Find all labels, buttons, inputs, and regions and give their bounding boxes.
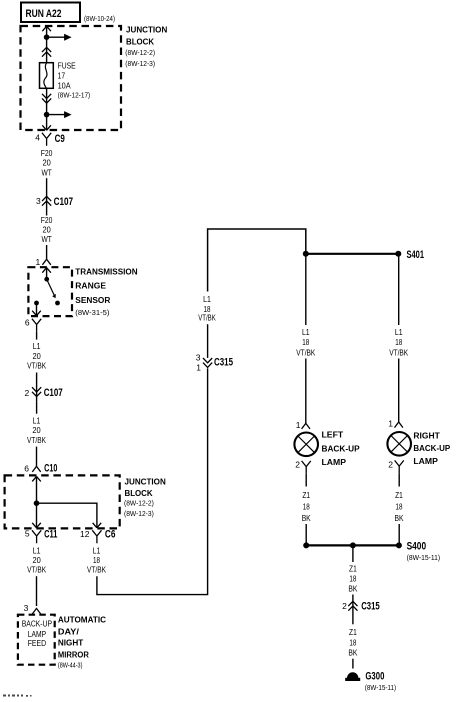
node: splice middle on bus bbox=[350, 542, 356, 548]
svg-text:1: 1 bbox=[296, 420, 301, 430]
left lamp pin 2 bbox=[295, 460, 311, 474]
right lamp pin 1 bbox=[388, 419, 403, 429]
svg-text:18: 18 bbox=[302, 337, 309, 347]
svg-text:VT/BK: VT/BK bbox=[27, 360, 46, 370]
ground G300 labels bbox=[365, 671, 397, 692]
svg-text:RUN A22: RUN A22 bbox=[26, 8, 62, 20]
svg-text:L1: L1 bbox=[302, 327, 310, 337]
junction block JB2 labels bbox=[124, 476, 166, 517]
switch pin6 node bbox=[34, 301, 39, 306]
svg-text:F20: F20 bbox=[41, 148, 53, 158]
svg-text:(8W-15-11): (8W-15-11) bbox=[365, 683, 397, 692]
svg-text:C9: C9 bbox=[55, 133, 65, 145]
pin 1 of transmission range sensor bbox=[35, 257, 50, 267]
svg-text:FUSE: FUSE bbox=[58, 61, 76, 71]
connector RUN A22 bbox=[21, 3, 80, 23]
svg-text:(8W-12-3): (8W-12-3) bbox=[125, 59, 155, 68]
wire bbox=[398, 359, 400, 423]
transmission range sensor labels bbox=[75, 267, 137, 317]
switch arm with arrowhead bbox=[47, 279, 55, 296]
svg-text:10A: 10A bbox=[58, 80, 71, 90]
svg-text:RIGHT: RIGHT bbox=[413, 431, 440, 441]
entry arrow into sensor bbox=[42, 268, 51, 273]
svg-text:C315: C315 bbox=[214, 357, 233, 369]
svg-text:C10: C10 bbox=[44, 462, 57, 474]
wire label L1 20 VT/BK below C11 bbox=[27, 545, 46, 574]
entry arrow into JB2 bbox=[32, 476, 41, 481]
svg-text:2: 2 bbox=[24, 388, 29, 398]
automatic day/night mirror labels bbox=[58, 615, 106, 670]
junction block JB1 box bbox=[21, 26, 122, 130]
svg-text:5: 5 bbox=[25, 529, 30, 539]
right back-up lamp labels bbox=[413, 431, 450, 466]
wire right lamp column upper bbox=[398, 254, 400, 325]
svg-text:18: 18 bbox=[93, 555, 100, 565]
svg-text:3: 3 bbox=[36, 196, 41, 206]
wire above C315 bbox=[207, 324, 209, 358]
svg-text:JUNCTION: JUNCTION bbox=[125, 476, 166, 486]
svg-text:WT: WT bbox=[41, 234, 51, 244]
svg-text:BACK-UP: BACK-UP bbox=[413, 443, 450, 453]
svg-text:20: 20 bbox=[32, 555, 41, 565]
wire bbox=[305, 359, 307, 424]
wire label Z1 18 BK lower bbox=[348, 627, 357, 658]
svg-text:BLOCK: BLOCK bbox=[126, 37, 155, 47]
svg-text:2: 2 bbox=[295, 460, 300, 470]
wire label Z1 18 BK left bbox=[302, 490, 311, 523]
svg-text:BK: BK bbox=[348, 648, 357, 658]
sensor pin 6 connector bbox=[25, 318, 41, 332]
switch contact node bbox=[55, 301, 60, 306]
wire bbox=[352, 611, 354, 624]
wire bbox=[46, 245, 48, 259]
svg-text:L1: L1 bbox=[395, 327, 403, 337]
svg-text:6: 6 bbox=[24, 463, 29, 473]
svg-text:VT/BK: VT/BK bbox=[389, 348, 408, 358]
connector C315 pin 2 bbox=[342, 600, 380, 612]
svg-text:Z1: Z1 bbox=[302, 490, 310, 500]
svg-text:BACK-UP: BACK-UP bbox=[22, 619, 53, 629]
connector C10 pin 6 bbox=[24, 462, 57, 474]
switch common node bbox=[44, 277, 49, 282]
svg-text:1: 1 bbox=[35, 257, 40, 267]
svg-text:Z1: Z1 bbox=[395, 490, 403, 500]
wire bbox=[398, 524, 400, 545]
svg-text:DAY/: DAY/ bbox=[58, 627, 80, 637]
fuse labels bbox=[58, 61, 91, 100]
svg-text:S401: S401 bbox=[407, 249, 425, 261]
node: splice in JB2 bbox=[34, 500, 40, 506]
wire below fuse bbox=[46, 88, 48, 114]
connector C6 pin 12 bbox=[80, 529, 115, 544]
svg-text:BLOCK: BLOCK bbox=[125, 488, 154, 498]
svg-text:(8W-15-11): (8W-15-11) bbox=[407, 553, 441, 562]
svg-text:18: 18 bbox=[349, 638, 356, 648]
svg-text:TRANSMISSION: TRANSMISSION bbox=[75, 267, 137, 277]
wire label Z1 18 BK right bbox=[395, 490, 404, 523]
svg-text:(8W-31-5): (8W-31-5) bbox=[75, 308, 110, 317]
svg-text:(8W-12-17): (8W-12-17) bbox=[58, 91, 91, 100]
connector C9 pin 4 bbox=[35, 133, 65, 146]
svg-text:C11: C11 bbox=[44, 529, 57, 541]
svg-text:C107: C107 bbox=[44, 387, 63, 399]
right lamp pin 2 bbox=[388, 460, 404, 474]
svg-text:G300: G300 bbox=[365, 671, 384, 683]
page footer smudge bbox=[3, 695, 32, 697]
svg-text:L1: L1 bbox=[33, 545, 41, 555]
svg-text:AUTOMATIC: AUTOMATIC bbox=[58, 615, 106, 625]
left back-up lamp labels bbox=[322, 430, 360, 468]
svg-text:6: 6 bbox=[25, 318, 30, 328]
connector C11 pin 5 bbox=[25, 529, 58, 544]
wire inside JB2 left bbox=[36, 476, 38, 527]
exit arrows from JB2 bbox=[32, 523, 41, 528]
svg-text:Z1: Z1 bbox=[349, 627, 357, 637]
wire bbox=[46, 178, 48, 215]
wire label F20 20 WT bbox=[41, 148, 53, 178]
wire to JB1 exit with down arrow bbox=[46, 115, 48, 131]
svg-text:3: 3 bbox=[24, 603, 29, 613]
wire to S401 bbox=[306, 253, 399, 255]
svg-text:BACK-UP: BACK-UP bbox=[322, 443, 360, 453]
wire bbox=[36, 402, 38, 414]
wire label F20 20 WT bbox=[41, 215, 53, 244]
svg-text:1: 1 bbox=[196, 362, 201, 372]
svg-text:VT/BK: VT/BK bbox=[296, 348, 315, 358]
wire bbox=[305, 524, 307, 545]
svg-text:C6: C6 bbox=[105, 529, 116, 541]
wire label L1 18 VT/BK left lamp bbox=[296, 327, 315, 358]
node: splice dot in JB1 lower with branch arrow right bbox=[44, 112, 50, 118]
svg-text:LAMP: LAMP bbox=[322, 457, 347, 467]
svg-text:NIGHT: NIGHT bbox=[58, 638, 84, 648]
wire label L1 20 VT/BK bbox=[27, 341, 46, 370]
svg-text:C315: C315 bbox=[361, 600, 380, 612]
wire stem below pin 6 bbox=[36, 332, 38, 340]
svg-text:(8W-12-3): (8W-12-3) bbox=[124, 509, 154, 518]
connector C107 pin 2 bbox=[24, 387, 62, 399]
wire middle column top elbow bbox=[208, 229, 306, 292]
wire label L1 18 VT/BK below C6 bbox=[87, 545, 106, 574]
svg-text:3: 3 bbox=[196, 352, 201, 362]
svg-text:(8W-12-2): (8W-12-2) bbox=[124, 499, 154, 508]
wire from C6 down, right, and up the middle column bbox=[97, 368, 208, 594]
svg-text:MIRROR: MIRROR bbox=[58, 650, 90, 660]
svg-text:1: 1 bbox=[388, 419, 393, 429]
wire label L1 20 VT/BK bbox=[27, 416, 46, 445]
back-up lamp feed labels bbox=[22, 619, 53, 648]
svg-text:L1: L1 bbox=[33, 341, 41, 351]
svg-text:18: 18 bbox=[396, 502, 403, 512]
svg-text:Z1: Z1 bbox=[349, 564, 357, 574]
wire bbox=[36, 373, 38, 402]
svg-text:20: 20 bbox=[32, 425, 41, 435]
svg-text:2: 2 bbox=[342, 601, 347, 611]
svg-text:RANGE: RANGE bbox=[75, 281, 106, 291]
svg-text:(8W-12-2): (8W-12-2) bbox=[125, 48, 155, 57]
svg-text:4: 4 bbox=[35, 133, 40, 143]
wire from RUN A22 into JB1 with entry arrow bbox=[46, 26, 48, 37]
wire label Z1 18 BK middle bbox=[348, 564, 357, 594]
connector C315 pins 3/1 bbox=[196, 352, 233, 372]
svg-text:LEFT: LEFT bbox=[322, 430, 344, 440]
svg-text:18: 18 bbox=[349, 574, 356, 584]
right back-up lamp symbol bbox=[387, 432, 411, 456]
svg-text:(8W-10-24): (8W-10-24) bbox=[84, 14, 115, 23]
svg-text:VT/BK: VT/BK bbox=[87, 565, 106, 575]
fuse 17 10A bbox=[40, 63, 54, 89]
svg-text:BK: BK bbox=[395, 513, 404, 523]
ground bus wire S400 bbox=[306, 544, 399, 546]
svg-text:20: 20 bbox=[42, 158, 51, 168]
wire below right lamp bbox=[398, 473, 400, 486]
wire branch to C6 bbox=[37, 503, 97, 528]
svg-text:17: 17 bbox=[58, 71, 66, 81]
svg-text:VT/BK: VT/BK bbox=[27, 435, 46, 445]
svg-text:BK: BK bbox=[302, 513, 311, 523]
left back-up lamp symbol bbox=[294, 433, 318, 457]
svg-text:VT/BK: VT/BK bbox=[198, 313, 216, 323]
node: splice S401 bbox=[395, 251, 401, 257]
wire bbox=[36, 447, 38, 467]
left lamp pin 1 bbox=[296, 420, 310, 430]
junction block JB2 box bbox=[5, 475, 120, 528]
connector chevrons below fuse bbox=[42, 94, 51, 103]
svg-text:SENSOR: SENSOR bbox=[75, 295, 111, 305]
mirror pin 3 bbox=[24, 603, 41, 614]
wire label L1 18 VT/BK right lamp bbox=[389, 327, 408, 358]
node: splice left on bus bbox=[303, 542, 309, 548]
svg-text:18: 18 bbox=[395, 337, 402, 347]
svg-text:WT: WT bbox=[41, 167, 51, 177]
connector C107 pin 3 bbox=[36, 196, 73, 208]
wire left lamp column upper bbox=[305, 254, 307, 325]
svg-text:C107: C107 bbox=[54, 196, 74, 208]
wire bbox=[352, 595, 354, 612]
wire from C11 to mirror bbox=[36, 576, 38, 606]
svg-text:2: 2 bbox=[388, 460, 393, 470]
wire pin6 exit with down arrow bbox=[36, 303, 38, 316]
svg-text:L1: L1 bbox=[93, 545, 101, 555]
wire dot to fuse bbox=[46, 37, 48, 63]
svg-text:VT/BK: VT/BK bbox=[27, 565, 46, 575]
wire below left lamp bbox=[305, 474, 307, 487]
svg-text:BK: BK bbox=[348, 584, 357, 594]
svg-text:LAMP: LAMP bbox=[413, 456, 438, 466]
svg-text:12: 12 bbox=[80, 529, 90, 539]
svg-text:18: 18 bbox=[303, 502, 310, 512]
transmission range sensor box bbox=[28, 267, 72, 316]
node: splice above left lamp bbox=[303, 251, 309, 257]
svg-text:FEED: FEED bbox=[28, 638, 46, 648]
node: splice dot in JB1 upper with branch arrow right bbox=[44, 34, 50, 40]
automatic day/night mirror box bbox=[18, 615, 55, 665]
connector chevrons above fuse bbox=[42, 47, 51, 56]
wire below bus bbox=[352, 545, 354, 562]
wire to ground bbox=[352, 659, 354, 669]
svg-text:L1: L1 bbox=[203, 294, 211, 304]
ground G300 symbol bbox=[345, 672, 360, 681]
node: splice S400 bbox=[396, 542, 402, 548]
svg-text:(8W-44-3): (8W-44-3) bbox=[58, 660, 83, 669]
svg-text:S400: S400 bbox=[407, 540, 427, 552]
wire label L1 18 VT/BK middle column bbox=[198, 294, 216, 323]
junction block JB1 labels bbox=[125, 25, 167, 68]
svg-text:JUNCTION: JUNCTION bbox=[126, 25, 167, 35]
